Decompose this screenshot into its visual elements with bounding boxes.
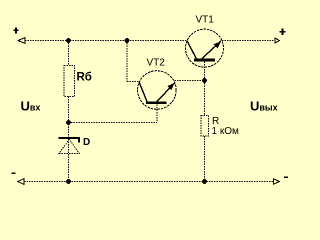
- svg-text:VT1: VT1: [196, 15, 215, 26]
- wire VT1 base lead: [204, 62, 206, 81]
- terminal arrow bottom-left: [18, 179, 24, 185]
- terminal - bottom-left: [12, 172, 16, 174]
- transistor VT2 emitter arrowhead: [167, 83, 174, 90]
- resistor Rб body: [64, 66, 75, 97]
- terminal + top-left: [13, 27, 18, 33]
- wire VT2 base lead vertical: [156, 105, 158, 123]
- node junction bottom left: [66, 179, 71, 184]
- wire top rail left segment: [25, 40, 188, 42]
- wire VT2 emitter to node: [175, 80, 205, 82]
- wire VT2 base lead horizontal to D node: [69, 122, 158, 124]
- node junction top VT2 feed: [125, 38, 130, 43]
- zener diode D anode triangle: [59, 139, 79, 153]
- svg-text:Rб: Rб: [77, 72, 92, 84]
- resistor R body: [201, 116, 209, 137]
- wire resistor R to bottom rail: [204, 136, 206, 182]
- node junction top Rб: [66, 38, 71, 43]
- wire left branch Rб top: [68, 41, 70, 66]
- terminal arrow top-left: [18, 38, 25, 44]
- transistor VT1 base bar: [194, 59, 215, 62]
- transistor VT1 circle: [186, 29, 224, 67]
- zener diode D cathode bar: [59, 137, 81, 139]
- transistor VT2 circle: [138, 71, 177, 110]
- node junction D / VT2 base: [66, 120, 71, 125]
- node junction bottom right: [202, 179, 207, 184]
- svg-text:D: D: [83, 137, 90, 148]
- wire top rail right segment: [222, 40, 274, 42]
- svg-text:VT2: VT2: [147, 57, 166, 68]
- terminal arrow top-right: [275, 38, 280, 43]
- wire VT2 input horizontal: [127, 81, 139, 83]
- node junction VT1 base / VT2 emitter / R: [202, 78, 207, 83]
- transistor VT1 collector line: [187, 41, 196, 59]
- transistor VT2 emitter line: [157, 83, 175, 102]
- wire left branch Rб bottom to D to bottom rail: [68, 97, 70, 182]
- svg-text:1 кОм: 1 кОм: [212, 126, 239, 137]
- zener diode D cathode tick: [78, 139, 80, 142]
- transistor VT1 emitter arrowhead: [214, 41, 221, 48]
- transistor VT2 base bar: [146, 101, 167, 104]
- terminal arrow bottom-right: [273, 179, 279, 185]
- transistor VT1 emitter line: [202, 41, 222, 59]
- terminal - bottom-right: [284, 176, 288, 178]
- wire VT2 input vertical: [126, 41, 128, 82]
- wire node to resistor R: [204, 81, 206, 116]
- terminal + top-right: [280, 29, 286, 35]
- wire bottom rail: [24, 181, 274, 183]
- transistor VT2 collector line: [139, 82, 147, 102]
